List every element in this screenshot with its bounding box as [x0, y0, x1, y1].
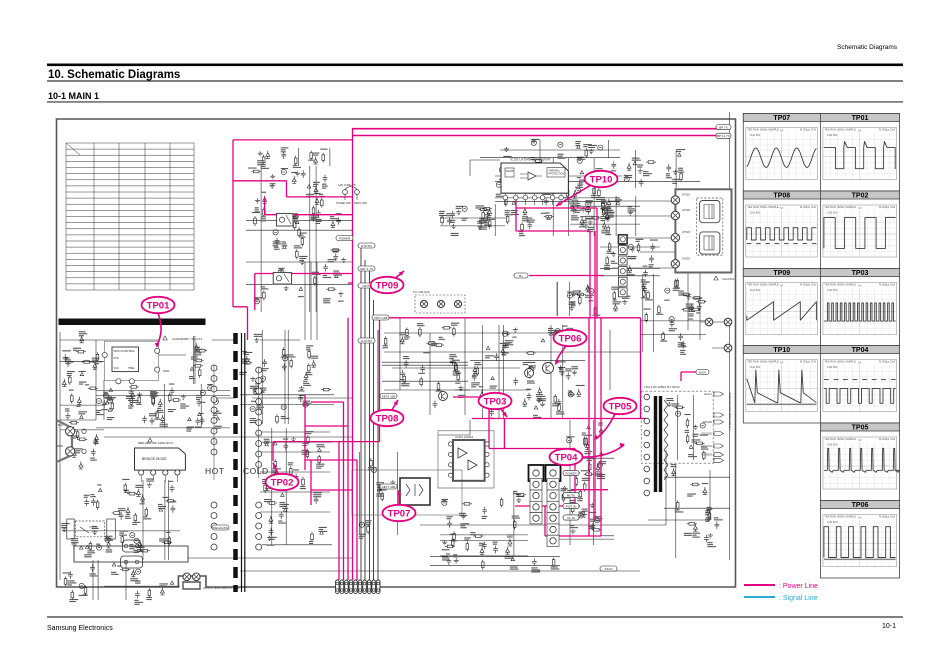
diode [508, 538, 512, 546]
wire [440, 225, 505, 227]
value label [316, 219, 322, 220]
ground [338, 292, 343, 297]
svg-text:TP07: TP07 [388, 508, 411, 519]
value label [516, 494, 521, 495]
component cluster [558, 420, 614, 545]
ground [588, 220, 593, 225]
capacitor electrolytic [618, 289, 623, 294]
ground [516, 498, 521, 503]
capacitor electrolytic [462, 206, 467, 211]
resistor [129, 386, 139, 388]
ground [456, 210, 461, 215]
wire [164, 480, 166, 560]
wire [287, 330, 289, 424]
value label [618, 287, 623, 288]
ground [451, 224, 456, 229]
value label [479, 218, 487, 219]
svg-text:CH1 50V: CH1 50V [750, 365, 761, 369]
value label [128, 398, 134, 399]
capacitor electrolytic [531, 140, 536, 145]
value label [536, 394, 543, 395]
connector strip P402 [546, 465, 561, 547]
test point TP02 [266, 463, 299, 490]
ground [581, 207, 586, 212]
value label [128, 406, 134, 407]
value label [714, 517, 719, 518]
resistor [565, 329, 575, 331]
capacitor [323, 175, 328, 183]
wire [329, 148, 331, 166]
diode [263, 196, 267, 204]
value label [543, 194, 551, 195]
wire [252, 397, 352, 399]
diode [605, 212, 609, 220]
value label [441, 499, 448, 500]
value label [571, 215, 578, 216]
net label HGH [696, 370, 709, 375]
wire [568, 282, 570, 316]
value label [69, 390, 74, 391]
jack [700, 201, 720, 223]
resistor [563, 492, 565, 502]
value label [453, 554, 457, 555]
resistor [385, 336, 387, 346]
value label [134, 600, 138, 601]
resistor [455, 364, 457, 374]
value label [199, 413, 203, 414]
value label [338, 301, 344, 302]
wire [640, 320, 706, 322]
value label [464, 537, 471, 538]
value label [278, 521, 282, 522]
warning mark [580, 171, 584, 174]
wire [620, 180, 700, 182]
wire [567, 158, 569, 236]
svg-text:BRN: BRN [57, 444, 63, 448]
wire [664, 507, 730, 509]
capacitor [649, 255, 654, 263]
value label [92, 358, 99, 359]
value label [475, 205, 484, 206]
waveform panel TP04 [820, 346, 899, 424]
power line [305, 395, 311, 505]
resistor [308, 363, 310, 373]
capacitor [102, 400, 107, 408]
terminal strip CN401 [618, 235, 627, 297]
svg-text:TEK RUN: 5MS/s SAMPLE: TEK RUN: 5MS/s SAMPLE [824, 515, 856, 519]
capacitor electrolytic [499, 167, 504, 172]
resistor [462, 503, 472, 505]
value label [442, 555, 448, 556]
value label [493, 542, 498, 543]
value label [323, 273, 330, 274]
value label [368, 467, 377, 468]
value label [569, 201, 577, 202]
svg-text:AET 4-7S: AET 4-7S [360, 267, 373, 271]
resistor [643, 288, 645, 298]
wire [200, 384, 202, 428]
resistor [88, 387, 98, 389]
diode [245, 356, 249, 364]
capacitor [404, 360, 409, 368]
net label BP 12.7X [716, 133, 731, 138]
capacitor electrolytic [283, 356, 288, 361]
capacitor electrolytic [601, 201, 606, 206]
value label [306, 372, 312, 373]
wire [104, 585, 180, 587]
capacitor [200, 417, 205, 425]
svg-text:TP04: TP04 [555, 452, 578, 463]
value label [604, 208, 610, 209]
value label [576, 385, 585, 386]
wire [430, 564, 560, 566]
value label [97, 484, 101, 485]
svg-text:M 250µs CH1: M 250µs CH1 [879, 515, 895, 519]
ground [267, 536, 272, 541]
svg-text:TEK RUN: 5MS/s SAMPLE: TEK RUN: 5MS/s SAMPLE [747, 283, 779, 287]
value label [317, 444, 325, 445]
warning mark [541, 339, 545, 342]
capacitor [503, 181, 508, 189]
svg-text:TEK RUN: 5MS/s SAMPLE: TEK RUN: 5MS/s SAMPLE [747, 360, 779, 364]
wire [400, 318, 465, 415]
wire [558, 535, 614, 537]
diode [480, 390, 484, 398]
svg-text:TIME: TIME [128, 366, 134, 370]
value label [501, 182, 508, 183]
value label [502, 343, 510, 344]
value label [500, 343, 505, 344]
wire [570, 223, 640, 225]
test point TP01 [142, 297, 175, 348]
diode [138, 540, 142, 548]
warning mark [80, 415, 84, 418]
power line [339, 318, 357, 580]
value label [299, 233, 306, 234]
value label [132, 522, 140, 523]
value label [200, 402, 206, 403]
capacitor [513, 378, 518, 386]
capacitor [502, 173, 507, 181]
value label [526, 389, 531, 390]
warning mark [377, 485, 381, 488]
resistor [600, 208, 610, 210]
value label [592, 315, 600, 316]
value label [76, 406, 80, 407]
value label [292, 216, 297, 217]
capacitor [482, 507, 487, 515]
value label [601, 200, 607, 201]
value label [299, 256, 307, 257]
resistor [197, 350, 207, 352]
resistor [680, 172, 682, 182]
test point TP06 [554, 330, 587, 365]
resistor [606, 256, 608, 266]
wire [593, 420, 595, 545]
value label [67, 371, 75, 372]
wire [500, 140, 620, 163]
value label [451, 323, 460, 324]
value label [314, 193, 320, 194]
value label [680, 350, 685, 351]
value label [533, 415, 538, 416]
waveform panel TP07 [743, 114, 820, 192]
value label [511, 210, 518, 211]
value label [570, 525, 574, 526]
value label [257, 160, 264, 161]
svg-text:COLD: COLD [243, 466, 269, 476]
diode [586, 442, 590, 450]
resistor [603, 207, 605, 217]
wire [60, 419, 96, 421]
net label POWER [336, 236, 353, 241]
capacitor [472, 373, 477, 381]
wire [194, 336, 196, 384]
resistor [609, 242, 611, 252]
component cluster [480, 139, 620, 159]
svg-text:M 250µs CH1: M 250µs CH1 [800, 283, 816, 287]
svg-text:10-1 MAIN 1: 10-1 MAIN 1 [48, 91, 99, 101]
capacitor [281, 151, 286, 159]
svg-text:TP05: TP05 [852, 425, 869, 432]
ground [558, 365, 563, 370]
net label DEGAUSS [212, 525, 229, 530]
ground [505, 331, 510, 336]
svg-text:TP05: TP05 [609, 401, 632, 412]
value label [308, 160, 314, 161]
capacitor [71, 427, 76, 435]
capacitor electrolytic [208, 385, 213, 390]
value label [294, 245, 301, 246]
value label [67, 580, 74, 581]
resistor [322, 153, 324, 163]
resistor [576, 294, 586, 296]
capacitor electrolytic [303, 402, 308, 407]
ground [536, 398, 541, 403]
resistor [607, 225, 609, 235]
resistor [675, 279, 677, 289]
value label [618, 236, 625, 237]
power line [352, 128, 728, 130]
value label [689, 307, 695, 308]
resistor [426, 342, 436, 344]
diode [473, 366, 477, 374]
svg-text:FOCUS1: FOCUS1 [701, 444, 712, 448]
warning mark [511, 558, 515, 561]
value label [250, 418, 256, 419]
capacitor [170, 388, 175, 396]
value label [628, 256, 636, 257]
diode [314, 157, 318, 165]
value label [523, 362, 530, 363]
capacitor electrolytic [676, 411, 681, 416]
power line [348, 282, 352, 284]
value label [630, 256, 637, 257]
svg-text:M 250µs CH1: M 250µs CH1 [879, 437, 895, 441]
value label [594, 516, 602, 517]
svg-text:TP02: TP02 [852, 193, 869, 200]
svg-text:KA3S0680RF-YD3-4/T3: KA3S0680RF-YD3-4/T3 [172, 337, 202, 341]
wire [246, 220, 352, 222]
value label [572, 337, 581, 338]
value label [267, 545, 275, 546]
resistor [120, 569, 130, 571]
value label [283, 439, 288, 440]
wire [74, 546, 188, 562]
wire [440, 555, 528, 557]
capacitor [269, 528, 274, 536]
capacitor electrolytic [555, 328, 560, 333]
resistor [76, 351, 86, 353]
terminal [66, 427, 75, 436]
value label [472, 375, 477, 376]
resistor [585, 148, 587, 158]
warning mark [299, 287, 303, 290]
ground [628, 210, 633, 215]
value label [118, 508, 125, 509]
wire [168, 480, 170, 560]
value label [281, 416, 286, 417]
value label [553, 330, 562, 331]
svg-text:IC401 LM393: IC401 LM393 [455, 435, 473, 439]
value label [538, 170, 542, 171]
value label [306, 345, 313, 346]
svg-text:M 250µs CH1: M 250µs CH1 [879, 360, 895, 364]
diode [400, 336, 404, 344]
warning mark [334, 275, 338, 278]
value label [74, 448, 82, 449]
power line [305, 402, 357, 490]
resistor [466, 541, 468, 551]
warning mark [283, 508, 287, 511]
capacitor electrolytic [558, 142, 563, 147]
resistor [434, 344, 444, 346]
value label [87, 550, 94, 551]
wire [246, 283, 352, 285]
capacitor [171, 505, 176, 513]
wire [193, 336, 195, 384]
value label [615, 197, 620, 198]
value label [158, 504, 163, 505]
ground [300, 260, 305, 265]
resistor [314, 276, 316, 286]
value label [595, 168, 602, 169]
capacitor [706, 514, 711, 522]
value label [248, 168, 256, 169]
resistor [598, 188, 600, 198]
svg-text:TP06: TP06 [559, 333, 582, 344]
svg-text:IC101 LA7845 1-DISP/VERT: IC101 LA7845 1-DISP/VERT [510, 158, 551, 162]
section underline [47, 101, 903, 104]
capacitor electrolytic [586, 202, 591, 207]
wire [693, 395, 695, 460]
ground [250, 377, 255, 382]
value label [551, 566, 558, 567]
value label [555, 340, 564, 341]
wire [373, 300, 375, 580]
value label [707, 507, 712, 508]
wire [246, 261, 352, 263]
value label [628, 206, 632, 207]
value label [264, 439, 270, 440]
ground [673, 170, 678, 175]
value label [254, 297, 262, 298]
value label [588, 145, 597, 146]
power line [529, 275, 604, 277]
switching device Q802 [273, 273, 291, 284]
wire [60, 360, 104, 362]
svg-text:TEK RUN: 5MS/s SAMPLE: TEK RUN: 5MS/s SAMPLE [747, 205, 779, 209]
svg-text:BLK: BLK [58, 423, 63, 427]
wire [420, 524, 666, 526]
value label [505, 210, 511, 211]
resistor [540, 161, 542, 171]
value label [195, 427, 202, 428]
value label [143, 516, 147, 517]
diode [72, 450, 76, 458]
value label [169, 384, 174, 385]
value label [107, 396, 112, 397]
capacitor [689, 304, 694, 312]
component cluster [104, 560, 180, 605]
component cluster [664, 464, 730, 558]
diode [315, 197, 319, 205]
waveform panel TP05 [820, 423, 899, 501]
capacitor [301, 170, 306, 178]
value label [678, 291, 683, 292]
component cluster [440, 491, 528, 561]
value label [170, 501, 176, 502]
ground [299, 386, 304, 391]
waveform panel TP10 [743, 346, 820, 424]
component cluster [61, 479, 180, 561]
value label [400, 379, 405, 380]
value label [119, 531, 128, 532]
capacitor [641, 283, 646, 291]
svg-text:AET9-11B: AET9-11B [382, 394, 396, 398]
ground [454, 558, 459, 563]
value label [117, 566, 121, 567]
resistor [591, 217, 601, 219]
test point TP04 [550, 443, 626, 465]
resistor [645, 313, 647, 323]
wire [125, 560, 127, 600]
value label [157, 408, 161, 409]
capacitor [479, 218, 484, 226]
value label [585, 435, 592, 436]
value label [196, 395, 201, 396]
component cluster [60, 331, 104, 469]
value label [150, 391, 157, 392]
value label [577, 157, 584, 158]
wire [700, 322, 724, 348]
terminal [437, 300, 444, 307]
resistor [591, 529, 601, 531]
value label [582, 433, 586, 434]
value label [458, 395, 465, 396]
value label [85, 384, 89, 385]
C-block connector [415, 295, 465, 313]
test point TP07 [383, 490, 416, 521]
resistor [457, 372, 459, 382]
terminal [705, 318, 713, 326]
power line [472, 418, 647, 420]
warning mark [320, 531, 324, 534]
wire [104, 355, 160, 420]
svg-text:OL IN: OL IN [567, 516, 575, 520]
value label [575, 187, 583, 188]
value label [417, 323, 423, 324]
